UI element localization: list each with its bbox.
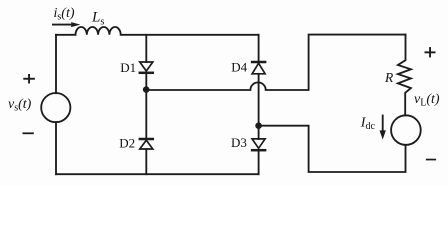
svg-text:is(t): is(t) [54,6,75,23]
svg-text:R: R [384,70,394,85]
svg-text:vs(t): vs(t) [8,97,32,114]
svg-text:vL(t): vL(t) [414,92,440,109]
svg-text:D1: D1 [120,60,136,75]
svg-text:D4: D4 [231,59,247,74]
svg-text:D2: D2 [119,136,135,151]
svg-text:D3: D3 [231,135,247,150]
svg-text:Idc: Idc [360,115,376,132]
svg-text:Ls: Ls [91,10,104,28]
